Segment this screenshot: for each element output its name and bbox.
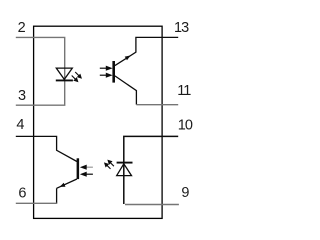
Q2 emitter vertical [56, 188, 58, 203]
Q2 emitter arrowhead [60, 183, 66, 187]
LED D1 cathode bar [56, 79, 73, 81]
svg-text:11: 11 [177, 83, 191, 99]
package outline [34, 26, 163, 218]
svg-text:6: 6 [18, 185, 26, 201]
LED D1 emission arrow 1 [75, 72, 81, 78]
LED D2 emission arrow 1 [108, 160, 114, 166]
Q2 light arrow 2 [81, 172, 93, 176]
Q2 light arrow 1 [81, 165, 93, 169]
svg-text:13: 13 [174, 20, 189, 36]
LED D1 emission arrow 2 [72, 76, 78, 82]
svg-text:10: 10 [178, 117, 193, 133]
svg-text:4: 4 [16, 117, 24, 133]
Q1 light arrow 2 [100, 73, 111, 77]
Q1 collector + vertical [115, 76, 136, 105]
svg-text:9: 9 [181, 185, 189, 201]
pin 6 lead wire [16, 202, 57, 204]
LED D1 triangle (anode) [56, 68, 72, 79]
phototransistor Q1 base bar [112, 61, 115, 83]
Q1 emitter arrowhead [125, 56, 131, 61]
svg-text:2: 2 [18, 20, 26, 36]
svg-text:3: 3 [18, 88, 26, 104]
dual optocoupler schematic [0, 0, 211, 239]
Q1 emitter + vertical + pin13 lead [115, 37, 178, 65]
Q2 emitter diagonal [57, 179, 77, 188]
pin 11 lead wire [136, 104, 178, 106]
wire: pin2 lead + LED string vertical + pin3 lead (gray C-shape) [16, 37, 65, 105]
Q1 light arrow 1 [100, 66, 111, 70]
LED D2 triangle (anode, pointing up) [117, 164, 132, 176]
LED D2 emission arrow 2 [105, 163, 111, 169]
wire: pin4 lead + vertical + Q2 collector diagonal [16, 136, 77, 161]
pin 9 lead wire [125, 204, 179, 206]
LED D2 cathode bar [117, 162, 133, 164]
phototransistor Q2 base bar [77, 158, 80, 179]
wire: pin10 lead + LED D2 string vertical [124, 136, 178, 204]
